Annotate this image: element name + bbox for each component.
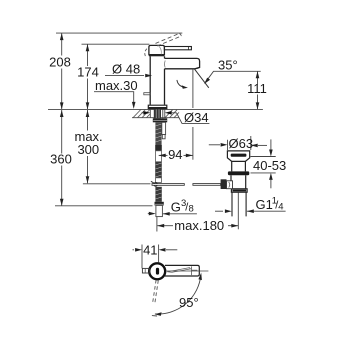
bottom view spout rect	[165, 265, 199, 276]
spout	[165, 58, 200, 68]
dim 360 arrow up	[60, 110, 64, 117]
hose braid lower	[155, 187, 161, 202]
G3/8 hose nut	[155, 202, 164, 206]
bottom view lever swung (dashed)	[153, 280, 159, 304]
waste centerline	[237, 193, 239, 230]
svg-text:Ø 48: Ø 48	[112, 62, 140, 77]
lever raised position (dashed)	[156, 33, 182, 46]
dim 94 arrow right	[186, 154, 193, 158]
dim 208 arrow up	[60, 33, 64, 40]
dim 40-53 ext line bottom	[251, 172, 276, 174]
waste upper body	[232, 161, 246, 171]
faucet body right edge lower	[164, 69, 166, 105]
faucet centerline extension (to max.180)	[156, 217, 158, 232]
svg-text:8: 8	[189, 204, 194, 215]
lever end tick	[152, 315, 157, 317]
dim 174 arrow up	[86, 44, 90, 51]
dim max.300 arrow up	[86, 110, 90, 117]
dim 174 vertical line	[87, 44, 89, 66]
mounting nut below counter	[153, 118, 167, 122]
svg-text:4: 4	[278, 201, 283, 212]
waste seal band	[228, 171, 249, 175]
svg-text:35°: 35°	[218, 58, 238, 73]
lever handle (horizontal, solid)	[164, 47, 191, 50]
faucet body right edge upper	[164, 56, 166, 58]
dim 94 line	[159, 154, 168, 156]
dim Ø34 arrow right (in counter)	[165, 111, 172, 115]
counter top surface line	[48, 108, 263, 110]
bottom view slot	[156, 268, 159, 275]
dim 41 ext line left	[141, 245, 143, 269]
dim Ø63 arrow right	[258, 144, 267, 146]
counter bottom line	[132, 117, 179, 119]
svg-text:G: G	[171, 200, 181, 215]
dim 111 arrow down	[256, 102, 260, 109]
supply hose braid upper	[155, 122, 161, 145]
svg-text:95°: 95°	[179, 295, 199, 310]
rod guide cap	[162, 135, 165, 139]
hose light segment	[156, 151, 162, 162]
bottom view spout inner sliver	[167, 268, 190, 273]
horizontal pop-up rod left segment	[152, 184, 184, 186]
dim G1 1/4 arrow left	[215, 210, 223, 212]
pop-up pull rod knob (rear of body)	[144, 93, 150, 95]
pop-up rod guide tube	[162, 122, 166, 134]
spout tip extension line (down to dim 94)	[192, 69, 194, 108]
dim 360 vertical line	[61, 110, 63, 154]
threaded shank through counter	[154, 109, 161, 118]
svg-text:208: 208	[49, 54, 71, 69]
dim max.300 arrow down	[86, 176, 90, 183]
svg-text:Ø34: Ø34	[184, 110, 209, 125]
dim max.180 line	[157, 225, 173, 227]
dim Ø48 arrow right	[145, 74, 152, 78]
dim 95deg arc	[155, 275, 201, 314]
waste bottom collar	[231, 189, 247, 192]
dim 111 vertical line	[257, 71, 259, 84]
dim max.180 arrow left	[157, 224, 164, 228]
waste flange	[227, 151, 249, 162]
svg-text:40-53: 40-53	[253, 158, 286, 173]
svg-text:Ø63: Ø63	[229, 136, 254, 151]
dim 95deg arrow at lever end	[155, 312, 162, 316]
bottom view aerator divider	[191, 266, 193, 275]
dim 94 arrow left	[159, 154, 166, 158]
dim 174 arrow down	[86, 102, 90, 109]
dim 360 arrow down	[60, 199, 64, 206]
dim max.300 vertical line	[87, 110, 89, 131]
horizontal pop-up rod right segment	[193, 184, 221, 186]
shank side tube	[162, 109, 164, 118]
dim 40-53 ext line top	[251, 156, 276, 158]
bottom view rod stub	[142, 268, 149, 273]
faucet base ring	[148, 105, 167, 109]
hose light segment 2	[156, 178, 162, 183]
head/body dark gap band	[149, 55, 165, 57]
dim 41 arrow left	[133, 249, 135, 251]
svg-text:300: 300	[77, 142, 99, 157]
body-spout junction curve	[164, 61, 167, 68]
svg-text:max.30: max.30	[95, 78, 138, 93]
water flow curved arrow	[177, 80, 185, 87]
svg-text:360: 360	[50, 151, 72, 166]
hole edge left	[149, 109, 151, 118]
G3/8 threaded end	[156, 205, 163, 216]
head inner joint curve	[159, 46, 162, 55]
dim 111 arrow up	[256, 71, 260, 78]
dim 35deg leader	[206, 71, 261, 82]
lever rear tip raised (dashed arc)	[145, 49, 147, 56]
aerator angle line (35 deg)	[195, 69, 209, 88]
dim max.300 extension line bottom	[83, 183, 151, 185]
faucet head (cartridge housing)	[149, 45, 165, 54]
waste tailpipe	[232, 192, 246, 216]
dim 95deg arrow at centerline	[198, 273, 202, 281]
counter hatch left	[133, 109, 150, 117]
dim 40-53 upper line + arrow down	[270, 139, 272, 149]
dim max.30 arrow down	[132, 102, 136, 109]
extension line body top (174 ref)	[82, 43, 150, 45]
dim 360 extension line bottom	[55, 205, 153, 207]
waste top seal dark	[231, 154, 247, 157]
svg-text:G1: G1	[256, 197, 273, 212]
dim Ø34 leader	[177, 113, 210, 124]
knurled rod adjuster	[221, 179, 227, 189]
dim G3/8 underline arrow right	[163, 213, 197, 215]
hole edge right	[164, 109, 166, 118]
lever raised tip cap (dashed)	[180, 33, 182, 36]
adjuster connector	[227, 181, 233, 189]
dim max.180 arrow right	[231, 224, 238, 228]
pop-up pivot cross fitting	[154, 183, 158, 187]
waste lower body	[231, 175, 246, 189]
dim Ø34 arrow left (in counter)	[143, 111, 150, 115]
dim Ø48 leader line	[105, 75, 144, 77]
dim 40-53 lower line + arrow up	[270, 180, 272, 188]
dim Ø63 arrow left	[209, 144, 220, 146]
hose dark block	[155, 145, 162, 151]
faucet body left edge	[149, 56, 151, 105]
hose braid mid	[155, 162, 162, 178]
dim 41 arrow right	[166, 249, 177, 251]
dim Ø63 ext line right	[250, 136, 252, 150]
dim 35deg arrowhead	[204, 78, 210, 84]
dim 208 arrow down	[60, 102, 64, 109]
dim 41 ext line right	[158, 245, 160, 263]
lever end cap line	[188, 47, 190, 50]
bottom view circle (body top view)	[149, 263, 165, 279]
dim G1 1/4 underline arrow	[247, 210, 286, 212]
svg-text:111: 111	[247, 81, 267, 96]
dim Ø63 ext line left	[227, 140, 229, 150]
svg-text:94: 94	[168, 147, 182, 162]
extension line top (lever tip level, 208 ref)	[56, 32, 182, 34]
base dark band	[148, 107, 167, 109]
counter hatch right	[165, 110, 179, 118]
dim max.30 underline and leader	[94, 92, 134, 102]
svg-text:41: 41	[143, 243, 157, 258]
aerator dark wedge	[195, 67, 200, 68]
bottom view centerline	[167, 270, 209, 272]
dim G3/8 arrow left	[148, 213, 150, 215]
svg-text:max.180: max.180	[174, 218, 224, 233]
dim 208 vertical line	[61, 33, 63, 55]
